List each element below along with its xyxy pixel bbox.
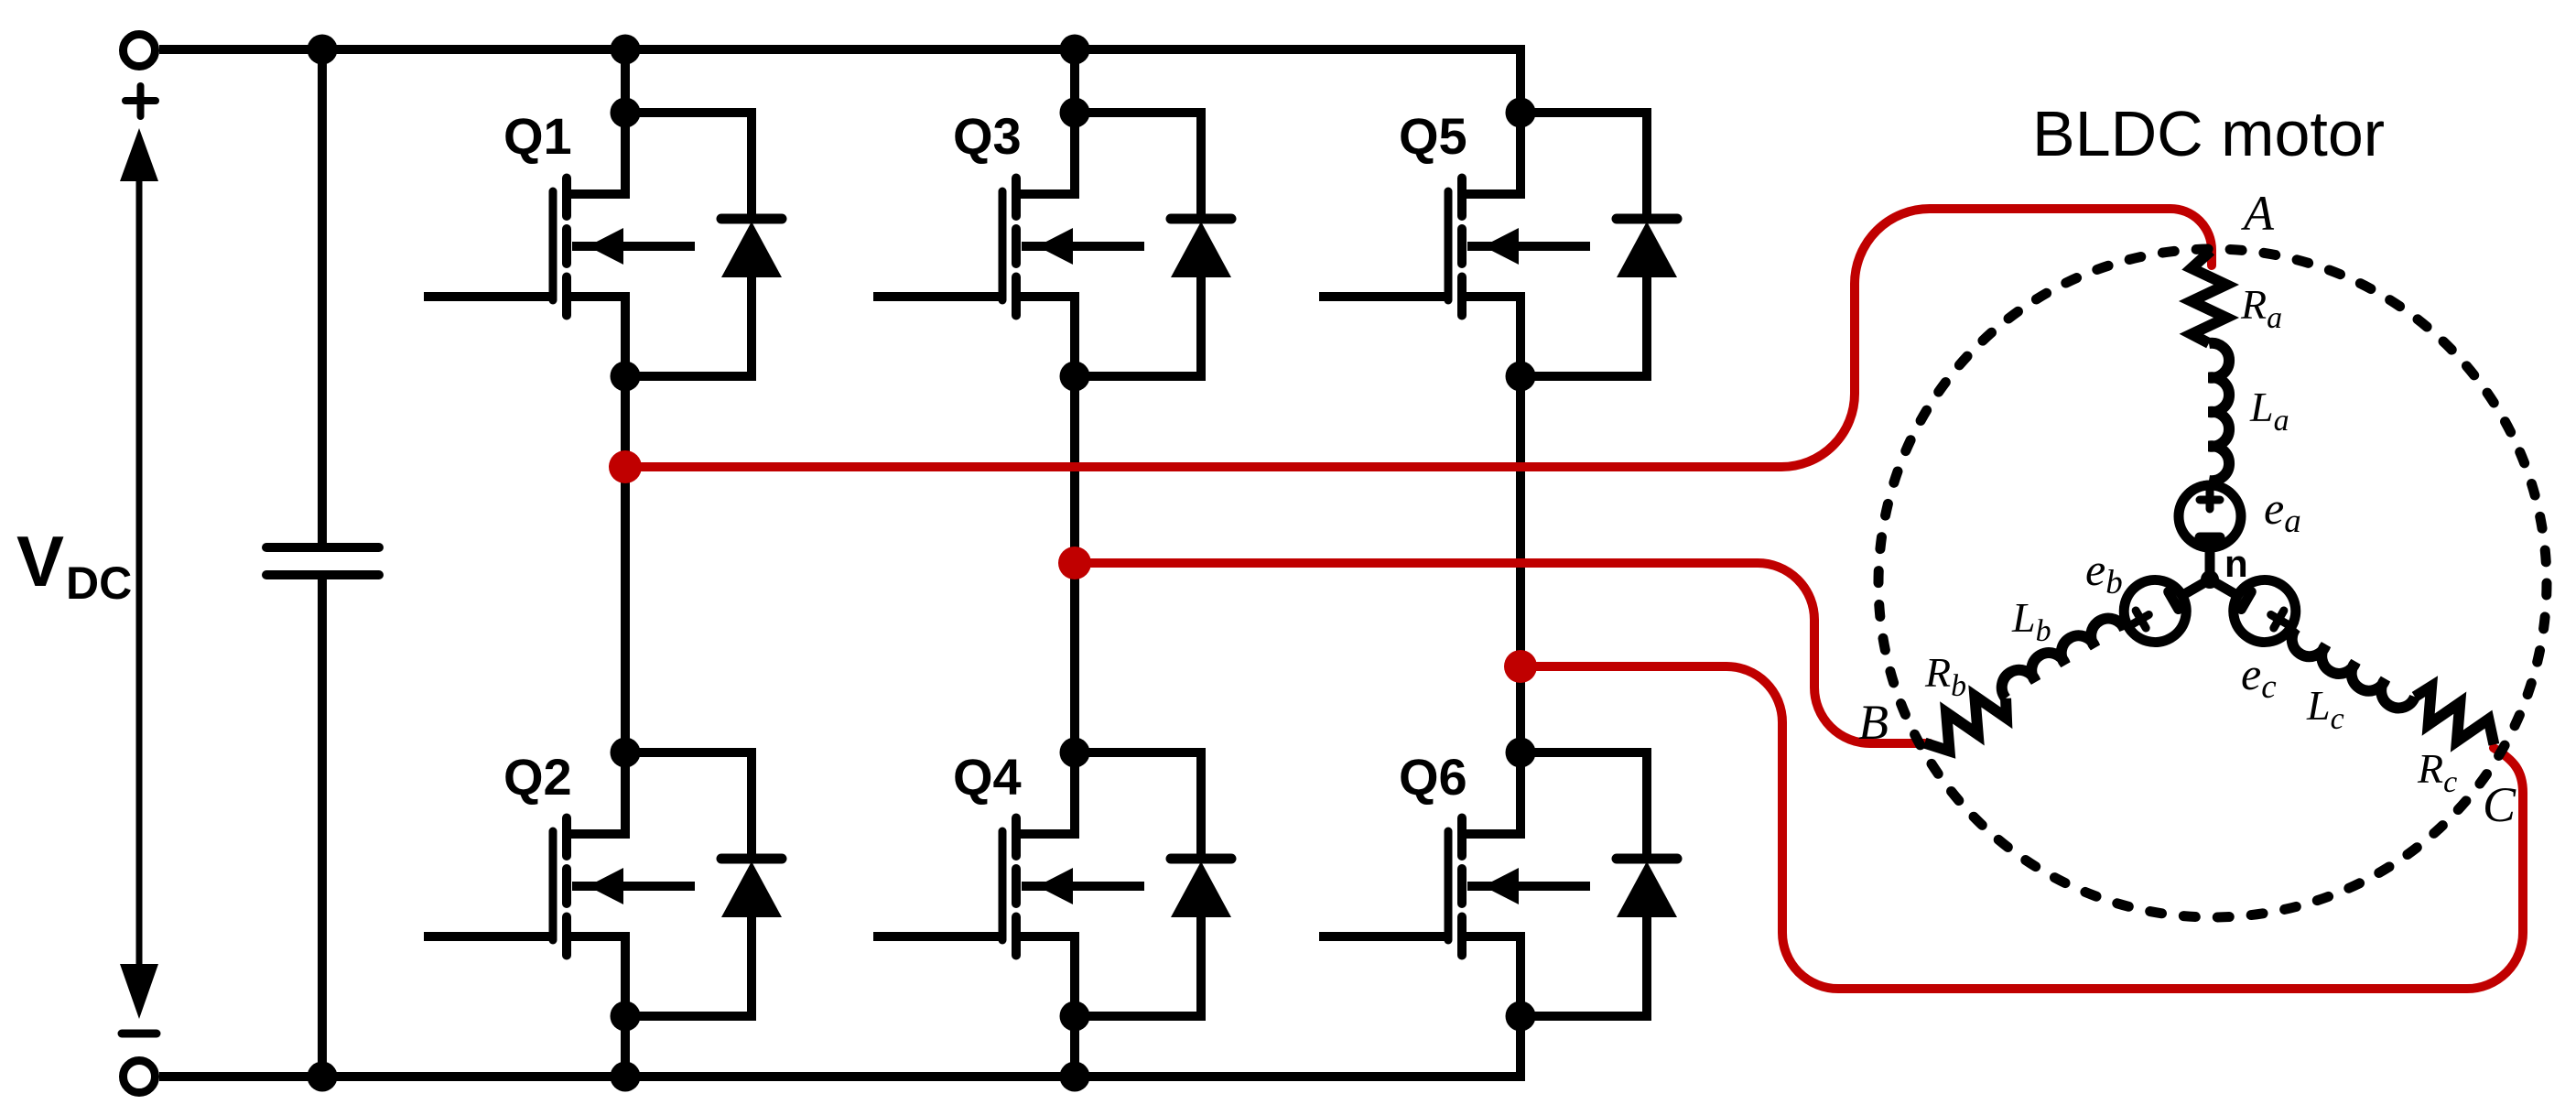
node: cap top junction xyxy=(308,35,338,65)
wire: leg B middle xyxy=(1070,376,1079,752)
wire: leg A lower xyxy=(621,1016,630,1077)
svg-text:Q3: Q3 xyxy=(953,107,1022,165)
svg-text:Q5: Q5 xyxy=(1399,107,1467,165)
node: - terminal xyxy=(124,1061,156,1093)
transistor Q2 xyxy=(424,738,782,1032)
wire: leg A upper xyxy=(621,49,630,113)
phase a chain (Ra, La, ea) xyxy=(2179,251,2241,579)
svg-text:BLDC motor: BLDC motor xyxy=(2032,98,2385,169)
transistor Q5 xyxy=(1319,98,1677,392)
node B' red dot xyxy=(1058,547,1091,579)
phase b chain (Rb, Lb, eb) xyxy=(1910,553,2225,771)
wire: capacitor top leg xyxy=(318,49,327,543)
node A' red dot xyxy=(609,450,642,483)
wire: phase B red xyxy=(1075,563,1930,743)
wire: capacitor bottom leg xyxy=(318,579,327,1077)
wire: leg C middle xyxy=(1516,376,1525,752)
transistor Q4 xyxy=(873,738,1231,1032)
node: bottom rail / leg B xyxy=(1060,1062,1090,1092)
node: top rail / leg B xyxy=(1060,35,1090,65)
transistor Q1 xyxy=(424,98,782,392)
wire: phase A red xyxy=(625,209,2212,467)
wire: bottom rail xyxy=(159,1016,1521,1077)
svg-text:B: B xyxy=(1858,695,1889,750)
svg-text:A: A xyxy=(2241,186,2275,241)
label + xyxy=(125,86,156,116)
node: + terminal xyxy=(124,35,156,67)
capacitor C plates xyxy=(266,543,379,552)
wire: leg A middle xyxy=(621,376,630,752)
svg-text:Q6: Q6 xyxy=(1399,748,1467,806)
wire: top rail xyxy=(159,49,1521,113)
VDC measurement arrow xyxy=(136,179,143,965)
node n star point xyxy=(2201,570,2219,589)
svg-text:Q4: Q4 xyxy=(953,748,1022,806)
node: cap bottom junction xyxy=(308,1062,338,1092)
transistor Q3 xyxy=(873,98,1231,392)
transistor Q6 xyxy=(1319,738,1677,1032)
wire: leg B lower xyxy=(1070,1016,1079,1077)
node: bottom rail / leg A xyxy=(611,1062,641,1092)
svg-text:Q1: Q1 xyxy=(503,107,572,165)
label - xyxy=(122,1030,157,1038)
node: top rail / leg A xyxy=(611,35,641,65)
svg-text:DC: DC xyxy=(66,557,132,609)
svg-text:n: n xyxy=(2224,542,2248,585)
node C' red dot xyxy=(1504,650,1537,683)
phase c chain (Rc, Lc, ec) xyxy=(2194,553,2510,771)
svg-text:Q2: Q2 xyxy=(503,748,572,806)
svg-text:C: C xyxy=(2483,777,2516,832)
motor boundary dashed circle xyxy=(1878,249,2547,917)
wire: leg B upper xyxy=(1070,49,1079,113)
svg-text:V: V xyxy=(16,521,64,601)
wire: phase C red xyxy=(1521,666,2523,989)
